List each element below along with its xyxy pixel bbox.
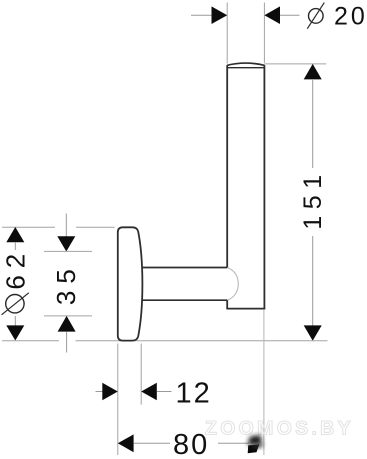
diameter symbol of dim 62 bbox=[2, 293, 29, 315]
dimension 151 line lower segment bbox=[312, 236, 314, 326]
dimension 12 left arrow bbox=[102, 383, 118, 401]
value label 12 bbox=[176, 378, 212, 410]
svg-text:20: 20 bbox=[334, 2, 367, 30]
diameter symbol of dim 20 bbox=[307, 3, 324, 29]
dimension 151 top arrow bbox=[304, 64, 322, 80]
arm top edge bbox=[142, 267, 228, 269]
dimension 62 bottom arrow bbox=[6, 325, 24, 340]
dimension 62 top arrow bbox=[6, 227, 24, 242]
dimension 80 line right segment bbox=[218, 442, 249, 444]
dimension 151 bottom arrow bbox=[304, 325, 322, 340]
dimension 80 right arrow smudged bbox=[248, 435, 263, 453]
svg-text:35: 35 bbox=[51, 262, 81, 305]
dimension 20 line left tail bbox=[191, 14, 212, 16]
dimension 35 bottom leader bbox=[66, 332, 68, 353]
svg-text:ZOOMOS.BY: ZOOMOS.BY bbox=[205, 418, 354, 440]
dimension 62 line lower stub bbox=[14, 316, 16, 326]
extension line right of dim 20 bbox=[263, 3, 265, 64]
tube top inner line bbox=[227, 67, 264, 69]
extension line right of dim 12 bbox=[140, 344, 142, 405]
value label 62 (rotated) bbox=[1, 247, 31, 290]
extension line top of dim 151 bbox=[265, 63, 326, 65]
svg-text:151: 151 bbox=[299, 168, 327, 229]
dimension 20 line right tail bbox=[280, 14, 300, 16]
tube right edge bbox=[263, 65, 265, 308]
value label 20 bbox=[334, 2, 367, 30]
tube top dome bbox=[227, 63, 265, 65]
wall plate outline bbox=[118, 227, 143, 340]
dimension 12 left leader bbox=[96, 391, 104, 393]
extension line left of dims 12 and 80 bbox=[117, 344, 119, 456]
dimension 35 top leader bbox=[65, 214, 67, 237]
dimension 80 left arrow bbox=[118, 434, 134, 452]
dimension 12 right leader bbox=[157, 391, 172, 393]
extension line top of dim 62 bbox=[2, 226, 115, 228]
svg-text:80: 80 bbox=[173, 429, 209, 459]
tube left edge upper bbox=[226, 65, 228, 267]
tube bottom edge bbox=[226, 308, 265, 310]
tube left edge lower step bbox=[226, 300, 228, 308]
svg-text:12: 12 bbox=[176, 378, 212, 410]
dimension 20 left arrow bbox=[212, 6, 228, 24]
extension line right of dim 80 bbox=[263, 310, 265, 455]
dimension 62 line upper stub bbox=[14, 242, 16, 250]
dimension 151 line upper segment bbox=[312, 79, 314, 168]
extension line top of dim 35 bbox=[44, 250, 92, 252]
dimension 20 right arrow bbox=[264, 6, 280, 24]
extension line left of dim 20 bbox=[226, 3, 228, 64]
value label 80 bbox=[173, 429, 209, 459]
arm bottom edge bbox=[142, 299, 228, 301]
dimension 35 bottom arrow bbox=[58, 316, 76, 332]
value label 151 (rotated) bbox=[299, 168, 327, 229]
extension line bottom of dim 35 bbox=[44, 315, 92, 317]
dimension 35 top arrow bbox=[57, 236, 75, 251]
arm rounded tip arc bbox=[227, 268, 238, 301]
dimension 12 right arrow bbox=[141, 383, 157, 401]
value label 35 (rotated) bbox=[51, 262, 81, 305]
dimension 80 line left segment bbox=[134, 442, 170, 444]
watermark zoomos.by bbox=[205, 418, 354, 440]
svg-text:62: 62 bbox=[1, 247, 31, 290]
extension line bottom shared by dim 151 and dim 62 bbox=[2, 340, 328, 342]
